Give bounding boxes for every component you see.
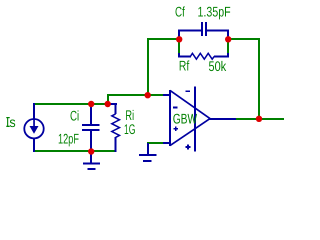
ground 2 bar 2 — [143, 160, 151, 162]
wire op-amp + input — [147, 142, 163, 144]
label Ri — [126, 110, 133, 120]
capacitor Cf plate 2 — [205, 22, 207, 36]
node dot Ri top — [105, 101, 111, 107]
wire output — [236, 118, 284, 120]
wire bottom rail — [33, 150, 116, 152]
label Is — [7, 117, 15, 127]
wire Is top horizontal — [33, 103, 108, 105]
current source Is bottom lead — [33, 138, 35, 152]
wire feedback vertical — [147, 38, 149, 96]
capacitor Ci top lead — [90, 103, 92, 124]
ground 1 bar 2 — [88, 168, 96, 170]
ground 1 stem — [90, 151, 92, 163]
wire feedback top right — [228, 38, 260, 40]
op-amp triangle top edge — [170, 90, 210, 118]
capacitor Ci bottom lead — [90, 131, 92, 152]
capacitor Ci plate 2 — [82, 129, 100, 131]
current source Is top lead — [33, 103, 35, 120]
ground 2 stem — [147, 143, 149, 155]
wire vertical from Ri node up — [107, 94, 109, 105]
op-amp U1 left edge — [169, 90, 171, 146]
wire loop right mid segment — [227, 41, 229, 53]
resistor Ri bottom lead — [115, 137, 117, 152]
wire feedback top left — [147, 38, 179, 40]
label 12pF — [59, 134, 79, 147]
node dot ground 1 — [88, 148, 94, 154]
capacitor Ci plate 1 — [82, 124, 100, 126]
wire right drop to output — [258, 38, 260, 119]
node dot inverting input — [145, 92, 151, 98]
current source Is circle — [24, 119, 43, 138]
op-amp power rail line — [194, 87, 196, 152]
loop left vertical blue bends — [178, 30, 180, 42]
label 1G — [125, 124, 135, 134]
op-amp inverting input lead — [163, 94, 170, 96]
resistor Ri top lead bend — [108, 103, 117, 105]
current source Is arrow — [30, 120, 39, 134]
label GBW — [173, 114, 197, 124]
resistor Rf right lead — [214, 56, 229, 58]
node dot feedback left — [176, 36, 182, 42]
resistor Rf zigzag — [190, 53, 214, 59]
label 50k — [209, 61, 226, 71]
node dot Ci top — [88, 101, 94, 107]
wire loop left mid segment — [178, 41, 180, 53]
op-amp power minus mark — [186, 90, 191, 92]
wire upper to op-amp inverting input — [107, 94, 165, 96]
resistor Rf left lead — [178, 56, 191, 58]
capacitor Cf plate 1 — [201, 22, 203, 36]
capacitor Cf left lead — [178, 30, 201, 32]
ground 2 bar 1 — [139, 154, 157, 156]
op-amp output lead — [209, 118, 236, 120]
node dot output — [256, 116, 262, 122]
node dot feedback right — [225, 36, 231, 42]
label Cf — [176, 6, 185, 16]
op-amp non-inverting input lead — [163, 142, 170, 144]
label Ci — [71, 110, 79, 120]
label 1.35pF — [198, 7, 230, 20]
ground 1 bar 1 — [83, 163, 100, 165]
op-amp power plus mark — [186, 146, 191, 148]
loop right vertical blue bends — [227, 30, 229, 42]
op-amp non-inverting mark — [173, 128, 178, 130]
capacitor Cf right lead — [207, 30, 229, 32]
label Is serif bars — [6, 117, 9, 118]
label Rf — [180, 60, 190, 70]
op-amp triangle bottom edge — [170, 119, 210, 146]
resistor Ri zigzag — [112, 114, 120, 137]
op-amp inverting mark — [173, 107, 178, 109]
